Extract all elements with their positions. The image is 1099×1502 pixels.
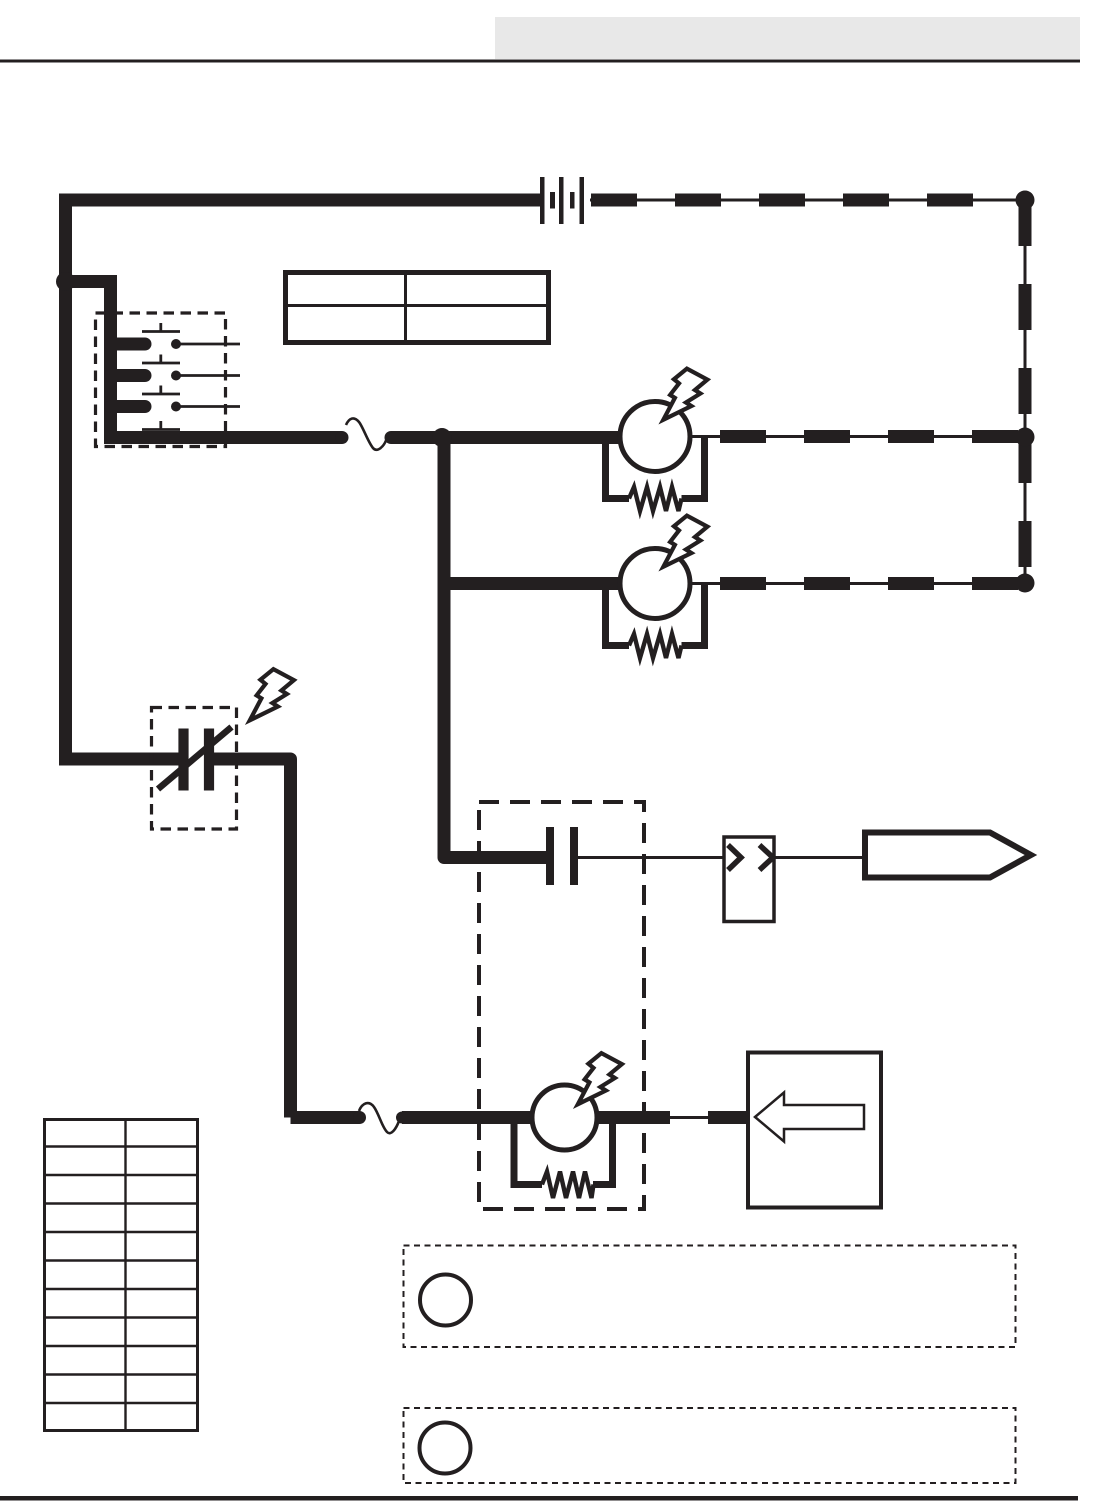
motor M1 output lead (dashed)	[690, 435, 1025, 438]
node: break 2 terminal	[396, 1112, 408, 1124]
switch S1 position 2	[111, 355, 240, 381]
capacitor C2 plate 2	[570, 827, 578, 885]
lightning at M3	[578, 1053, 622, 1104]
motor M3 bypass resistor R3	[514, 1117, 613, 1198]
motor M2 output lead (dashed)	[690, 582, 1025, 585]
wire: branch down to motor M2	[444, 438, 620, 584]
probe / nozzle shape	[865, 833, 1031, 878]
wire: break to motor M1	[391, 431, 620, 444]
switch S1 position 1: stub, blade, contact, lead	[111, 323, 240, 349]
wire break squiggle 1	[346, 418, 387, 449]
battery B1	[540, 177, 584, 224]
node: motor branch junction	[433, 428, 452, 447]
capacitor C2 lead	[578, 856, 724, 859]
switch S1 position 3	[111, 386, 240, 412]
motor M1	[620, 402, 690, 472]
node: top right corner	[1016, 191, 1035, 210]
motor M3 output lead	[597, 1111, 748, 1124]
capacitor C1 plate 2	[204, 729, 214, 791]
timer unit (dashed enclosure)	[479, 802, 644, 1209]
node: right bus bottom corner	[1016, 574, 1035, 593]
capacitor C2 plate 1	[546, 827, 554, 885]
selector switch S1 (dashed enclosure)	[96, 313, 226, 447]
bottom rule	[0, 1496, 1078, 1501]
wire: supply loop (top feed + left vertical down to suppressor)	[66, 200, 541, 759]
table: wiring legend (11 rows x 2 cols)	[45, 1120, 198, 1431]
capacitor C1 plate 1	[178, 729, 188, 791]
header band (gray)	[495, 17, 1080, 59]
control unit box	[748, 1053, 881, 1208]
top rule	[0, 60, 1080, 63]
lightning at C1	[250, 669, 294, 720]
motor M2 bypass resistor R2	[606, 583, 705, 658]
note box 2 (dashed)	[404, 1408, 1016, 1483]
wire break squiggle 2	[359, 1103, 399, 1133]
motor M2	[620, 549, 690, 619]
node: right bus junction	[1016, 428, 1035, 447]
motor M3	[532, 1085, 597, 1150]
variable arrow of C1	[158, 727, 232, 789]
note symbol 2	[420, 1423, 471, 1474]
wire: selector output	[104, 431, 342, 444]
connector (double plug)	[724, 837, 774, 922]
table: settings (2x2)	[286, 273, 549, 343]
direction arrow	[755, 1093, 864, 1142]
connector lead	[774, 856, 862, 859]
lightning at M2	[663, 516, 707, 567]
wire: C1 down to motor M3 row	[214, 759, 291, 1118]
wire: right bus vertical (dashed)	[1024, 200, 1027, 583]
wire: to motor M3	[402, 1111, 532, 1124]
wire: junction to selector riser	[66, 282, 111, 438]
node: supply junction	[56, 272, 75, 291]
suppressor C1 (dashed enclosure)	[152, 708, 237, 830]
switch S1 position 4 (on output wire)	[142, 421, 181, 444]
wire: branch down to capacitor C2	[444, 584, 546, 858]
motor M1 bypass resistor R1	[606, 436, 705, 511]
note symbol 1	[420, 1275, 471, 1326]
wire: battery to right bus (dashed)	[590, 199, 1025, 202]
lightning at M1	[663, 369, 707, 420]
note box 1 (dashed)	[404, 1246, 1016, 1348]
